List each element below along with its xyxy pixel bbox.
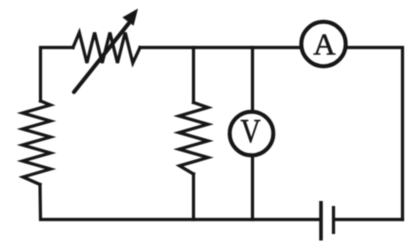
rheostat R1 zigzag — [73, 33, 140, 64]
rheostat arrow head — [124, 11, 136, 25]
wire top-left: left corner to rheostat — [41, 48, 74, 102]
wire bottom-left: left resistor to battery long plate — [40, 185, 320, 220]
svg-text:A: A — [313, 27, 336, 62]
svg-text:V: V — [240, 111, 261, 149]
wire voltmeter upper stub — [251, 48, 254, 113]
wire bottom-right: battery short plate to bottom-right corner — [335, 218, 403, 221]
resistor R3 (middle branch) zigzag — [179, 103, 208, 175]
rheostat arrow shaft — [74, 23, 129, 92]
wire middle-branch lower stub — [192, 174, 195, 220]
voltmeter U1 circle — [230, 112, 274, 156]
wire middle-branch upper stub — [192, 48, 195, 103]
wire voltmeter lower stub — [251, 156, 254, 220]
ammeter U2 circle — [301, 22, 345, 66]
wire top-right: ammeter to top-right corner — [346, 48, 403, 220]
wire top-middle: rheostat to ammeter — [140, 46, 302, 49]
resistor R2 (left branch) zigzag — [23, 101, 51, 185]
battery B1 long plate — [319, 201, 323, 241]
battery B1 short plate — [332, 206, 335, 234]
